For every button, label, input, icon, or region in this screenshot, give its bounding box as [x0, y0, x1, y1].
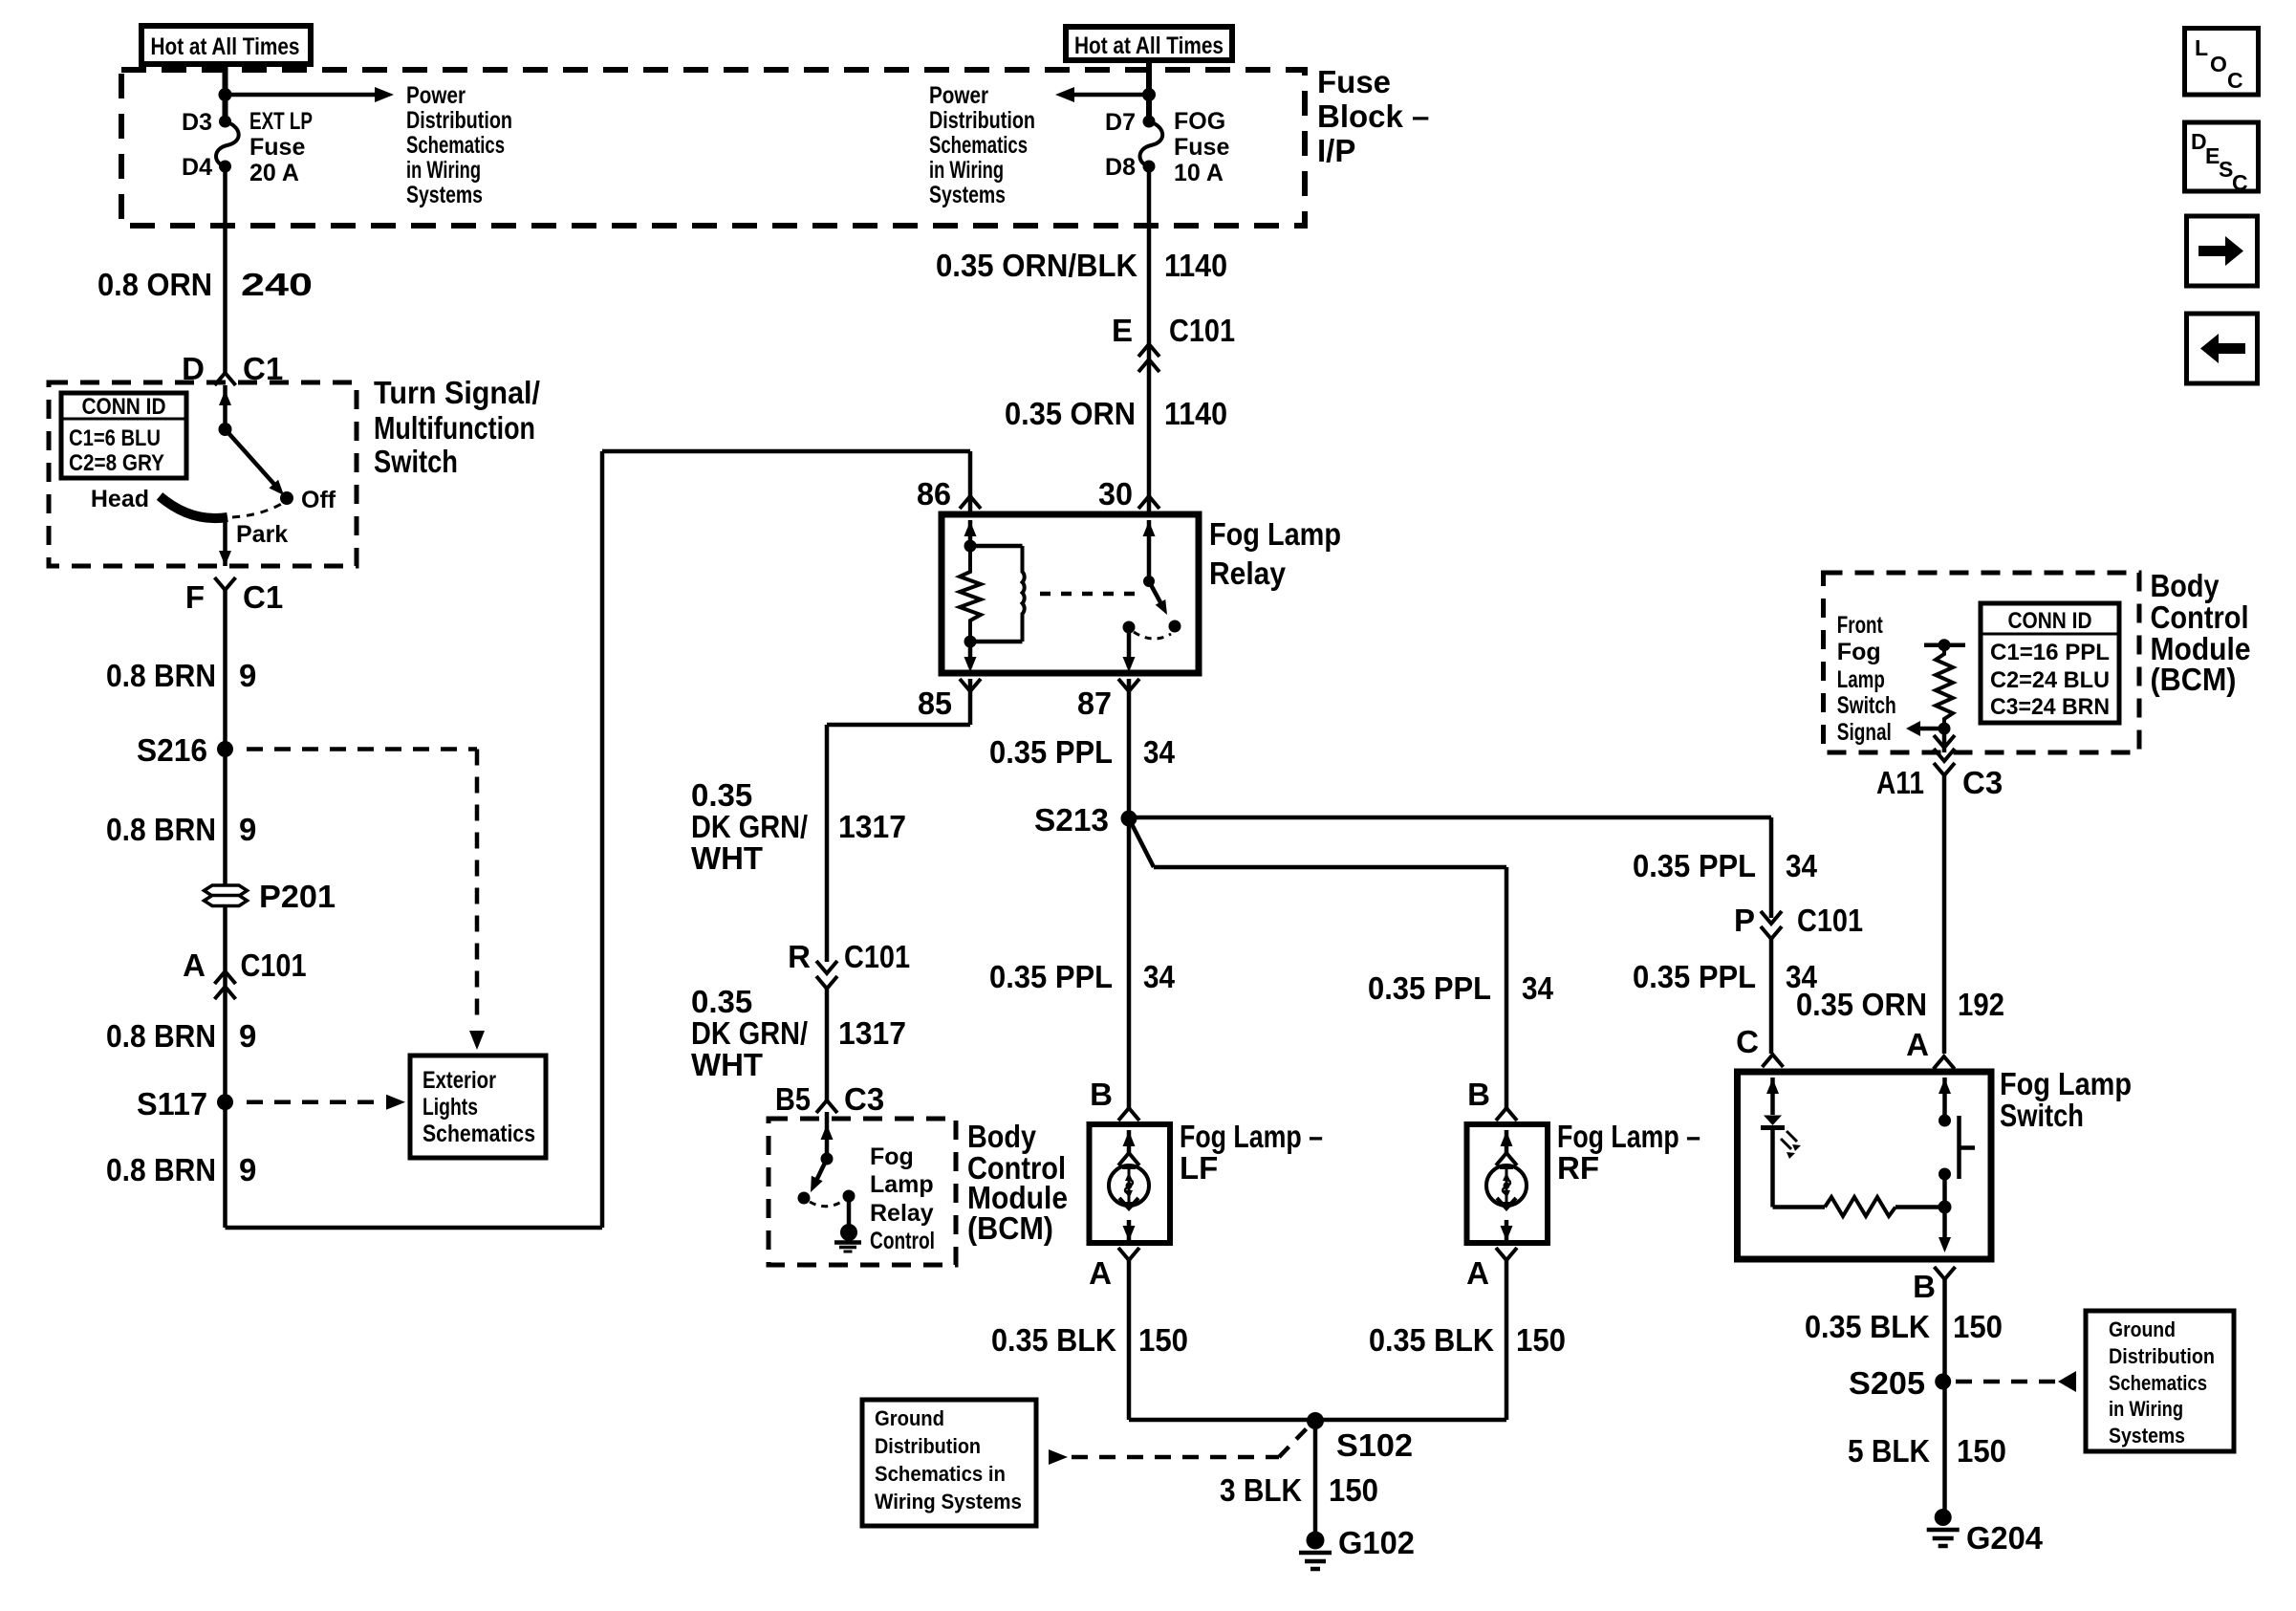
splice S102 — [1307, 1412, 1324, 1429]
BCM signal arrow — [1919, 727, 1944, 731]
fog lamp LF input arrow — [1127, 1130, 1132, 1154]
svg-text:A: A — [1089, 1255, 1112, 1291]
svg-text:Fog Lamp –: Fog Lamp – — [1180, 1119, 1323, 1154]
relay armature tip contact — [1169, 620, 1181, 633]
svg-text:5 BLK: 5 BLK — [1848, 1433, 1930, 1469]
svg-text:R: R — [788, 939, 811, 974]
svg-text:Distribution: Distribution — [875, 1434, 981, 1458]
svg-text:C: C — [2232, 170, 2248, 195]
svg-text:in Wiring: in Wiring — [929, 157, 1004, 184]
svg-text:Relay: Relay — [1209, 555, 1287, 591]
switch push contact — [1957, 1116, 1961, 1179]
svg-text:30: 30 — [1098, 476, 1133, 512]
hot at all times flag (right) — [1066, 27, 1232, 60]
svg-text:Control: Control — [2151, 599, 2249, 635]
svg-text:0.35: 0.35 — [691, 984, 752, 1019]
svg-text:85: 85 — [918, 686, 952, 721]
svg-text:0.35 PPL: 0.35 PPL — [1633, 848, 1756, 883]
wire: S213 branch to RF lamp — [1129, 818, 1154, 867]
svg-text:0.35 BLK: 0.35 BLK — [1369, 1322, 1494, 1358]
svg-text:34: 34 — [1522, 970, 1554, 1006]
svg-text:L: L — [2195, 35, 2208, 60]
svg-text:C2=24 BLU: C2=24 BLU — [1990, 667, 2110, 693]
svg-text:0.35 BLK: 0.35 BLK — [1805, 1309, 1930, 1344]
DESC nav box — [2185, 122, 2259, 191]
svg-text:Fog Lamp –: Fog Lamp – — [1557, 1119, 1700, 1154]
svg-text:20 A: 20 A — [249, 160, 299, 186]
svg-text:Schematics: Schematics — [406, 132, 505, 159]
svg-text:Power: Power — [929, 82, 988, 109]
svg-text:0.35 PPL: 0.35 PPL — [1368, 970, 1491, 1006]
svg-text:Exterior: Exterior — [422, 1067, 496, 1094]
svg-text:S213: S213 — [1034, 802, 1109, 838]
svg-text:FOG: FOG — [1174, 108, 1225, 135]
svg-text:CONN ID: CONN ID — [82, 394, 166, 420]
svg-text:Distribution: Distribution — [929, 107, 1035, 134]
body control module dashed box (right) — [1824, 573, 2140, 752]
svg-text:0.8 BRN: 0.8 BRN — [106, 658, 216, 693]
svg-text:0.8 BRN: 0.8 BRN — [106, 812, 216, 847]
svg-text:C: C — [2227, 68, 2243, 93]
svg-text:Ground: Ground — [875, 1406, 944, 1430]
svg-text:A: A — [1906, 1027, 1929, 1062]
fuse FOG 10A: pin D8 — [1143, 161, 1156, 173]
wire: switch output — [223, 517, 227, 566]
next-page nav box — [2187, 216, 2258, 286]
switch contact branch — [1942, 1078, 1947, 1121]
svg-text:P: P — [1734, 903, 1755, 938]
svg-text:A: A — [1466, 1255, 1489, 1291]
svg-text:B: B — [1090, 1077, 1113, 1112]
svg-text:G204: G204 — [1966, 1520, 2044, 1556]
dashed reference: ground distribution to S102 — [1049, 1449, 1068, 1465]
BCM switch input arrow — [821, 1124, 834, 1140]
svg-text:Control: Control — [870, 1228, 935, 1254]
splice S205 — [1935, 1374, 1951, 1390]
svg-text:C1: C1 — [243, 579, 283, 615]
splice S117 — [217, 1094, 233, 1110]
svg-text:Fog Lamp: Fog Lamp — [1209, 516, 1341, 552]
svg-text:Signal: Signal — [1837, 719, 1892, 746]
svg-text:C101: C101 — [1797, 903, 1863, 938]
relay NO contact dashed arc — [1134, 632, 1171, 639]
ground G102 — [1307, 1532, 1325, 1550]
svg-text:1317: 1317 — [838, 809, 906, 844]
svg-text:Off: Off — [301, 487, 336, 513]
svg-text:Body: Body — [2151, 568, 2220, 603]
svg-text:Park: Park — [236, 521, 288, 548]
svg-text:Block –: Block – — [1317, 98, 1429, 134]
svg-text:0.8 BRN: 0.8 BRN — [106, 1018, 216, 1054]
svg-text:D3: D3 — [182, 109, 212, 136]
svg-text:Front: Front — [1837, 612, 1884, 639]
svg-text:Switch: Switch — [1837, 692, 1896, 719]
svg-text:0.35 ORN: 0.35 ORN — [1005, 396, 1136, 431]
svg-text:150: 150 — [1953, 1309, 2003, 1344]
BCM output — [1942, 729, 1947, 752]
fuse EXT LP 20A: pin D4 — [219, 161, 231, 173]
svg-text:EXT LP: EXT LP — [249, 108, 313, 135]
fog lamp switch pin B — [1935, 1267, 1956, 1279]
svg-text:WHT: WHT — [691, 1047, 763, 1082]
relay coil top node — [964, 540, 977, 553]
BCM pull-up resistor — [1924, 642, 1965, 647]
fuse block I/P dashed box — [121, 70, 1305, 226]
fuse FOG 10A: pin D7 — [1143, 116, 1156, 128]
svg-text:Fuse: Fuse — [1174, 134, 1229, 161]
splice S213 — [1121, 811, 1137, 827]
dashed park arc — [232, 503, 283, 517]
svg-text:A11: A11 — [1876, 765, 1924, 800]
svg-text:Head: Head — [91, 486, 149, 512]
svg-text:C1=6 BLU: C1=6 BLU — [69, 425, 161, 451]
svg-text:0.35 ORN/BLK: 0.35 ORN/BLK — [936, 248, 1137, 283]
svg-text:Fuse: Fuse — [1317, 64, 1391, 99]
wire: relay 85 to BCM B5 — [968, 679, 973, 725]
svg-text:Lamp: Lamp — [1837, 666, 1885, 693]
svg-text:150: 150 — [1957, 1433, 2006, 1469]
svg-text:WHT: WHT — [691, 840, 763, 876]
svg-text:Lights: Lights — [422, 1094, 478, 1121]
svg-text:S205: S205 — [1849, 1365, 1925, 1401]
svg-text:Wiring Systems: Wiring Systems — [875, 1490, 1022, 1513]
wire: relay 87 down to S213 and LF lamp — [1127, 679, 1132, 1108]
svg-text:0.35 BLK: 0.35 BLK — [991, 1322, 1116, 1358]
fog lamp switch box — [1738, 1072, 1992, 1259]
svg-text:D7: D7 — [1105, 109, 1136, 136]
wire: switch input arrow — [223, 385, 227, 429]
svg-text:Multifunction: Multifunction — [374, 410, 535, 446]
svg-text:Systems: Systems — [929, 182, 1006, 208]
switch wiper (Head position) — [160, 496, 227, 518]
svg-text:D8: D8 — [1105, 154, 1136, 181]
fog lamp LF bulb — [1109, 1165, 1149, 1206]
wire: S213 to fog lamp switch column — [1129, 816, 1771, 820]
svg-text:Fog Lamp: Fog Lamp — [2000, 1066, 2132, 1101]
svg-text:34: 34 — [1143, 959, 1176, 994]
svg-text:150: 150 — [1138, 1322, 1188, 1358]
svg-text:C1=16 PPL: C1=16 PPL — [1990, 640, 2110, 665]
conn id table (BCM) — [1981, 603, 2119, 723]
svg-text:CONN ID: CONN ID — [2008, 608, 2092, 634]
relay coil bottom node — [964, 636, 977, 648]
fog lamp RF output — [1497, 1198, 1516, 1208]
svg-text:C2=8 GRY: C2=8 GRY — [69, 450, 164, 476]
svg-text:Switch: Switch — [2000, 1098, 2084, 1133]
svg-text:10 A: 10 A — [1174, 160, 1224, 186]
svg-text:S117: S117 — [137, 1086, 207, 1121]
svg-text:0.8 ORN: 0.8 ORN — [97, 267, 212, 302]
BCM switch ground contact — [843, 1190, 856, 1203]
fog lamp RF pin A — [1496, 1248, 1517, 1260]
svg-text:150: 150 — [1516, 1322, 1566, 1358]
relay pin 85 connector/label — [960, 679, 981, 691]
svg-text:9: 9 — [239, 812, 256, 847]
svg-text:9: 9 — [239, 658, 256, 693]
svg-text:Hot at All Times: Hot at All Times — [1074, 33, 1224, 59]
svg-text:Switch: Switch — [374, 444, 458, 479]
svg-text:Lamp: Lamp — [870, 1171, 934, 1198]
relay pin 87 connector/label — [1118, 679, 1139, 691]
fog lamp RF bulb — [1486, 1165, 1527, 1206]
BCM (relay control) dashed box — [769, 1119, 956, 1265]
svg-text:0.35 PPL: 0.35 PPL — [989, 734, 1113, 770]
exterior lights schematics box — [410, 1056, 546, 1158]
svg-text:I/P: I/P — [1317, 133, 1355, 168]
fog lamp relay box — [942, 514, 1199, 673]
wire: arrow to power distribution schematics (left) — [226, 93, 379, 98]
BCM switch dashed arc — [810, 1201, 843, 1207]
svg-text:C101: C101 — [1169, 313, 1235, 348]
ground G204 — [1935, 1509, 1952, 1526]
fog lamp LF output — [1119, 1198, 1138, 1208]
svg-text:34: 34 — [1143, 734, 1176, 770]
svg-text:in Wiring: in Wiring — [2109, 1397, 2183, 1421]
svg-text:1140: 1140 — [1164, 396, 1227, 431]
svg-text:(BCM): (BCM) — [967, 1210, 1053, 1246]
svg-text:Fog: Fog — [870, 1143, 914, 1170]
svg-text:Fuse: Fuse — [249, 134, 305, 161]
dashed reference: S117 to exterior lights schematics — [247, 1099, 382, 1104]
fog lamp LF box — [1090, 1124, 1171, 1243]
svg-text:Body: Body — [967, 1119, 1037, 1154]
wire: arrow to power distribution schematics (right) — [1071, 93, 1149, 98]
svg-text:Power: Power — [406, 82, 466, 109]
svg-text:C101: C101 — [844, 939, 910, 974]
svg-text:0.35 ORN: 0.35 ORN — [1796, 987, 1927, 1022]
node: switch common — [219, 423, 232, 436]
svg-text:B: B — [1913, 1269, 1936, 1304]
svg-text:C101: C101 — [241, 947, 307, 983]
svg-text:Ground: Ground — [2109, 1317, 2176, 1341]
relay coil input arrow (86) — [968, 520, 973, 547]
svg-text:9: 9 — [239, 1018, 256, 1054]
svg-text:86: 86 — [917, 476, 951, 512]
relay switch common (30) — [1147, 520, 1152, 581]
svg-text:0.35 PPL: 0.35 PPL — [989, 959, 1113, 994]
svg-text:1140: 1140 — [1164, 248, 1227, 283]
relay coil — [970, 544, 1023, 549]
svg-text:192: 192 — [1958, 987, 2004, 1022]
relay armature arm — [1149, 581, 1160, 602]
relay coil output arrow (85) — [968, 642, 973, 667]
svg-text:Distribution: Distribution — [406, 107, 512, 134]
svg-text:Turn Signal/: Turn Signal/ — [374, 375, 540, 410]
hot at all times flag (left) — [141, 26, 311, 64]
BCM switch pivot node — [821, 1153, 834, 1165]
fog lamp RF box — [1467, 1124, 1549, 1243]
node: power distribution tap (right) — [1142, 88, 1156, 101]
switch LED branch — [1770, 1078, 1775, 1115]
ground distribution box (right) — [2086, 1311, 2234, 1451]
connector F C1 — [215, 577, 236, 590]
BCM switch open contact — [798, 1192, 811, 1205]
BCM signal node — [1939, 723, 1951, 735]
node: Off contact — [280, 491, 293, 505]
svg-text:0.35: 0.35 — [691, 777, 752, 813]
svg-text:0.8 BRN: 0.8 BRN — [106, 1152, 216, 1187]
connector A11 C3 — [1934, 763, 1955, 775]
dashed reference: S216 to exterior lights schematics — [247, 747, 477, 751]
svg-text:B: B — [1467, 1077, 1490, 1112]
svg-text:9: 9 — [239, 1152, 256, 1187]
relay resistor — [960, 546, 981, 642]
fuse FOG 10A: element — [1140, 121, 1163, 166]
wire: 0.8 ORN 240 from fuse D4 to switch pin D — [223, 166, 227, 373]
svg-text:RF: RF — [1557, 1150, 1599, 1186]
svg-text:E: E — [1112, 313, 1133, 348]
wire: lamp grounds to S102 — [1129, 1418, 1315, 1423]
splice S216 — [217, 741, 233, 757]
switch LED — [1764, 1116, 1782, 1126]
wire: fuse D8 to relay pin 30 — [1147, 166, 1152, 514]
svg-text:A: A — [183, 947, 206, 983]
svg-text:F: F — [185, 579, 205, 615]
svg-text:DK GRN/: DK GRN/ — [691, 809, 808, 844]
svg-text:150: 150 — [1329, 1472, 1378, 1508]
switch resistor — [1773, 1205, 1826, 1209]
svg-text:34: 34 — [1786, 848, 1818, 883]
svg-text:Systems: Systems — [406, 182, 483, 208]
BCM internal ground — [840, 1224, 857, 1241]
relay armature dashed link — [1040, 592, 1143, 597]
fog lamp RF input arrow — [1505, 1130, 1509, 1154]
svg-text:C3: C3 — [1962, 765, 2003, 800]
LED light arrows — [1781, 1131, 1797, 1149]
node: power distribution tap (left) — [219, 88, 232, 101]
svg-text:S102: S102 — [1336, 1427, 1413, 1463]
wire: loop from S117 leg to relay pin 86 — [226, 1226, 603, 1230]
prev-page nav box — [2187, 314, 2258, 383]
ground distribution box (left) — [862, 1400, 1036, 1526]
svg-text:Schematics in: Schematics in — [875, 1462, 1006, 1486]
svg-text:87: 87 — [1077, 686, 1112, 721]
switch arm to Off — [226, 429, 279, 489]
svg-text:Fog: Fog — [1837, 639, 1881, 665]
svg-text:Schematics: Schematics — [929, 132, 1028, 159]
svg-text:S216: S216 — [137, 732, 207, 768]
svg-text:G102: G102 — [1338, 1525, 1415, 1560]
conn id table (switch) — [61, 393, 186, 478]
LOC nav box — [2185, 29, 2259, 96]
fuse EXT LP 20A: element — [216, 121, 239, 166]
switch output node — [1939, 1201, 1952, 1214]
svg-text:0.35 PPL: 0.35 PPL — [1633, 959, 1756, 994]
relay output contact node (87) — [1123, 621, 1136, 634]
svg-text:3 BLK: 3 BLK — [1220, 1472, 1302, 1508]
svg-text:C3=24 BRN: C3=24 BRN — [1990, 694, 2110, 720]
pass-through grommet P201 — [205, 885, 248, 906]
svg-text:Hot at All Times: Hot at All Times — [151, 33, 300, 60]
svg-text:240: 240 — [241, 267, 313, 302]
svg-text:in Wiring: in Wiring — [406, 157, 481, 184]
svg-text:Schematics: Schematics — [2109, 1371, 2207, 1395]
svg-text:B5: B5 — [775, 1081, 811, 1117]
dashed reference: S205 to ground distribution — [1956, 1380, 2055, 1384]
svg-text:Distribution: Distribution — [2109, 1344, 2215, 1368]
svg-text:LF: LF — [1180, 1150, 1218, 1186]
wire: battery feed stub into fuse block (left) — [223, 64, 228, 121]
svg-text:Systems: Systems — [2109, 1424, 2185, 1448]
fog lamp LF pin A — [1118, 1248, 1139, 1260]
fuse EXT LP 20A: pin D3 — [219, 116, 231, 128]
svg-text:P201: P201 — [259, 879, 336, 914]
svg-text:D4: D4 — [182, 154, 212, 181]
wire: battery feed stub into fuse block (right) — [1146, 60, 1152, 121]
turn signal/multifunction switch dashed box — [49, 382, 357, 566]
svg-text:O: O — [2210, 52, 2227, 76]
svg-text:1317: 1317 — [838, 1015, 906, 1051]
svg-text:C3: C3 — [844, 1081, 884, 1117]
svg-text:DK GRN/: DK GRN/ — [691, 1015, 808, 1051]
svg-text:Schematics: Schematics — [422, 1121, 535, 1147]
wire: S102 to G102 — [1313, 1421, 1318, 1540]
svg-text:Relay: Relay — [870, 1200, 934, 1227]
BCM switch arm — [814, 1159, 827, 1185]
relay output arrow (87) — [1127, 627, 1132, 667]
svg-text:C: C — [1736, 1024, 1759, 1059]
svg-text:(BCM): (BCM) — [2151, 662, 2237, 697]
